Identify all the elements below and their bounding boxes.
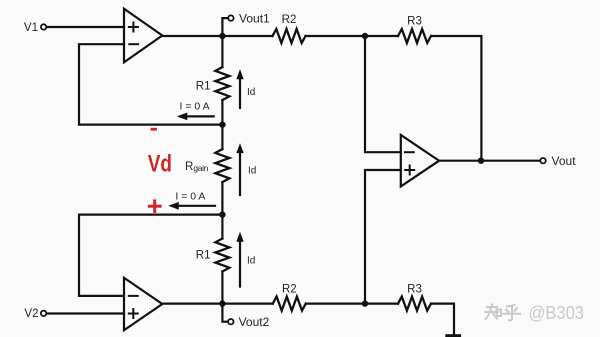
svg-text:Vout2: Vout2 [239, 315, 270, 329]
wire node T down to U3 inverting input [365, 36, 401, 152]
svg-text:Id: Id [247, 256, 255, 267]
resistor R3 (bottom) [398, 284, 431, 311]
terminal V2 [24, 308, 46, 320]
wire bottom row Vout2 to R2 [222, 303, 272, 305]
svg-text:R3: R3 [407, 16, 422, 28]
op-amp U2 [124, 278, 162, 330]
svg-text:Vout: Vout [552, 154, 577, 168]
resistor Rgain [185, 125, 229, 215]
resistor R1 (top) [196, 36, 230, 125]
node B junction (Rgain / R1 bottom) [219, 211, 225, 217]
wire U1 inverting input feedback [79, 44, 222, 124]
arrow Id (top) [236, 69, 255, 108]
svg-text:@B303: @B303 [529, 303, 585, 323]
wire V2 to U2 noninverting input [47, 312, 124, 314]
wire node G up to U3 noninverting input [365, 170, 401, 304]
wire Vout2 stub [222, 304, 228, 322]
svg-text:R2: R2 [282, 14, 297, 26]
node T junction [362, 33, 368, 39]
resistor R1 (bottom) [196, 215, 230, 304]
node Vout1 junction [219, 33, 225, 39]
terminal Vout2 [228, 315, 270, 329]
svg-text:Rgain: Rgain [185, 161, 209, 173]
wire U1 output [162, 35, 222, 37]
svg-text:R3: R3 [407, 284, 422, 296]
node G junction [362, 300, 368, 306]
svg-text:Id: Id [248, 166, 256, 177]
node Vout junction [478, 158, 484, 164]
wire R2 to node T [306, 35, 366, 37]
svg-text:R1: R1 [196, 250, 211, 262]
wire V1 to U1 noninverting input [47, 26, 124, 28]
resistor R2 (bottom) [273, 284, 306, 311]
wire top row Vout1 to R2 [222, 35, 272, 37]
wire R3 to ground [431, 304, 454, 334]
svg-text:R2: R2 [282, 284, 297, 296]
red minus annotation [151, 128, 157, 131]
wire U2 output [162, 303, 222, 305]
wire node T to R3 [365, 35, 398, 37]
terminal Vout [540, 154, 576, 168]
svg-text:R1: R1 [196, 81, 211, 93]
arrow I = 0 A (top) [177, 113, 214, 121]
op-amp U3 [401, 135, 439, 186]
terminal Vout1 [228, 11, 270, 25]
wire Vout1 stub [222, 18, 228, 36]
ground [445, 334, 461, 337]
svg-text:V1: V1 [24, 22, 38, 34]
arrow Id (bottom) [236, 232, 255, 287]
wire U3 output to Vout [439, 160, 540, 162]
wire U2 inverting feedback [79, 215, 222, 296]
svg-text:Vd: Vd [148, 151, 172, 178]
red plus annotation [149, 201, 160, 212]
node A junction (R1 top / Rgain) [219, 121, 225, 127]
arrow Id (middle) [236, 143, 256, 195]
watermark 知乎 @B303 [486, 305, 521, 321]
wire R3 to U3 output node [431, 36, 481, 161]
svg-text:Id: Id [247, 87, 255, 98]
svg-text:V2: V2 [24, 308, 38, 320]
resistor R2 (top) [273, 14, 306, 43]
resistor R3 (top) [398, 16, 431, 44]
arrow I = 0 A (bottom) [168, 202, 215, 210]
op-amp U1 [124, 9, 162, 63]
wire R2 to node G [306, 303, 365, 305]
svg-text:I = 0 A: I = 0 A [180, 100, 210, 112]
svg-text:I = 0 A: I = 0 A [175, 191, 205, 203]
wire node G to R3 [365, 303, 398, 305]
node Vout2 junction [219, 300, 225, 306]
terminal V1 [24, 22, 46, 34]
svg-text:Vout1: Vout1 [239, 11, 270, 25]
